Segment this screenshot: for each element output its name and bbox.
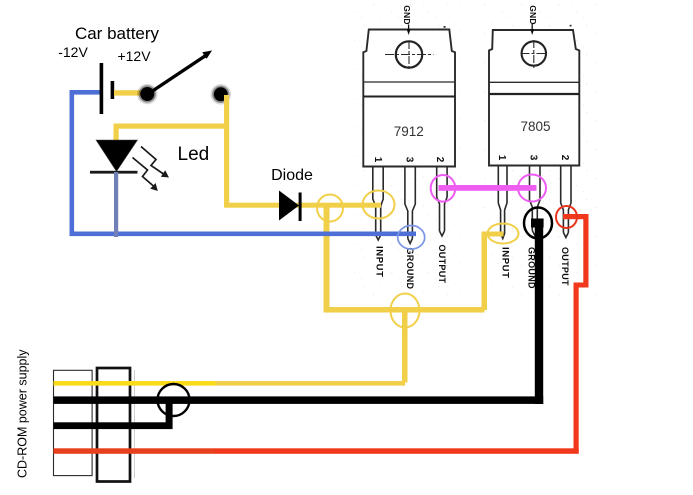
- svg-text:7912: 7912: [394, 124, 424, 139]
- svg-text:7805: 7805: [520, 119, 550, 134]
- wire: yellow from switch down to LED branch: [114, 95, 230, 205]
- wire: red CD-ROM connector stub: [54, 448, 216, 454]
- LED cathode lead wire: [114, 172, 118, 232]
- U2 pin 3 (GROUND): [530, 166, 541, 236]
- battery B1: [100, 63, 115, 114]
- node: blue circle at 7912 GROUND pin: [398, 226, 425, 250]
- svg-text:INPUT: INPUT: [374, 246, 385, 278]
- node: red circle at 7805 OUTPUT pin: [556, 206, 577, 228]
- wire: yellow +12V distribution (branch below diode, to 7805 INPUT and CD-ROM yellow): [215, 208, 504, 386]
- svg-text:3: 3: [527, 155, 538, 161]
- U2 pin 1 (INPUT): [498, 166, 507, 239]
- node: yellow junction circle at distribution T: [391, 294, 420, 328]
- svg-text:1: 1: [372, 157, 383, 163]
- U1 pin 3 (GROUND): [405, 167, 415, 244]
- wire: red +5V from 7805 OUTPUT down to connector: [215, 214, 589, 454]
- svg-text:INPUT: INPUT: [500, 247, 511, 279]
- switch S1 contact dot A: [137, 84, 158, 105]
- wire: blue -12V from battery down left side: [70, 90, 102, 236]
- svg-text:OUTPUT: OUTPUT: [437, 245, 447, 284]
- switch S1 contact dot B: [211, 84, 232, 105]
- svg-text:CD-ROM power supply: CD-ROM power supply: [16, 349, 30, 478]
- wire: yellow CD-ROM connector stub: [54, 381, 216, 386]
- diode D1: [279, 191, 302, 222]
- svg-text:-12V: -12V: [58, 44, 88, 60]
- svg-text:Diode: Diode: [271, 167, 313, 184]
- node: black junction circle: [158, 384, 190, 416]
- svg-text:2: 2: [434, 157, 445, 163]
- node: magenta circle at 7805 GROUND: [518, 175, 546, 202]
- U1 pin 1 (INPUT): [373, 167, 383, 240]
- wire: yellow from switch through diode to 7912 INPUT: [224, 203, 381, 208]
- scan speck near U2 tab: [570, 25, 572, 27]
- node: yellow circle at 7805 INPUT pin: [488, 224, 519, 244]
- svg-text:1: 1: [496, 155, 507, 161]
- svg-text:Car battery: Car battery: [75, 24, 160, 43]
- svg-text:3: 3: [403, 157, 414, 163]
- LED cathode lead over blue rail: [114, 230, 118, 237]
- switch S1 lever: [151, 51, 212, 93]
- wire: blue -12V bottom rail to 7912 GROUND: [70, 232, 417, 237]
- wire: black ground jumper from connector second black wire: [54, 400, 173, 429]
- LED light arrows: [133, 147, 164, 187]
- svg-text:GND: GND: [528, 5, 538, 25]
- svg-text:Led: Led: [178, 144, 210, 165]
- svg-text:2: 2: [559, 155, 570, 161]
- scan speck near U1 tab: [444, 26, 446, 28]
- wire: black ground from 7805 GROUND pin down and across to connector: [54, 219, 544, 405]
- U2 pin 2 (OUTPUT): [561, 166, 571, 238]
- node: magenta circle at 7912 OUTPUT: [431, 175, 456, 202]
- svg-text:OUTPUT: OUTPUT: [560, 247, 570, 286]
- svg-text:GROUND: GROUND: [405, 248, 415, 290]
- wire: magenta 7912 OUTPUT to 7805 GROUND: [439, 185, 537, 191]
- connector J1 CD-ROM power: [54, 368, 135, 482]
- svg-text:+12V: +12V: [117, 48, 151, 64]
- LED D2: [90, 140, 138, 174]
- svg-text:GND: GND: [402, 5, 412, 25]
- U1 pin 2 (OUTPUT): [437, 167, 447, 236]
- node: yellow circle at 7912 INPUT pin: [363, 191, 395, 219]
- regulator U2 7805: [489, 5, 579, 289]
- node: black circle at 7805 GROUND pin: [524, 208, 552, 239]
- node: yellow junction circle below diode: [317, 195, 343, 222]
- wire: yellow +12V from battery to switch: [114, 90, 144, 95]
- regulator U1 7912: [363, 5, 455, 289]
